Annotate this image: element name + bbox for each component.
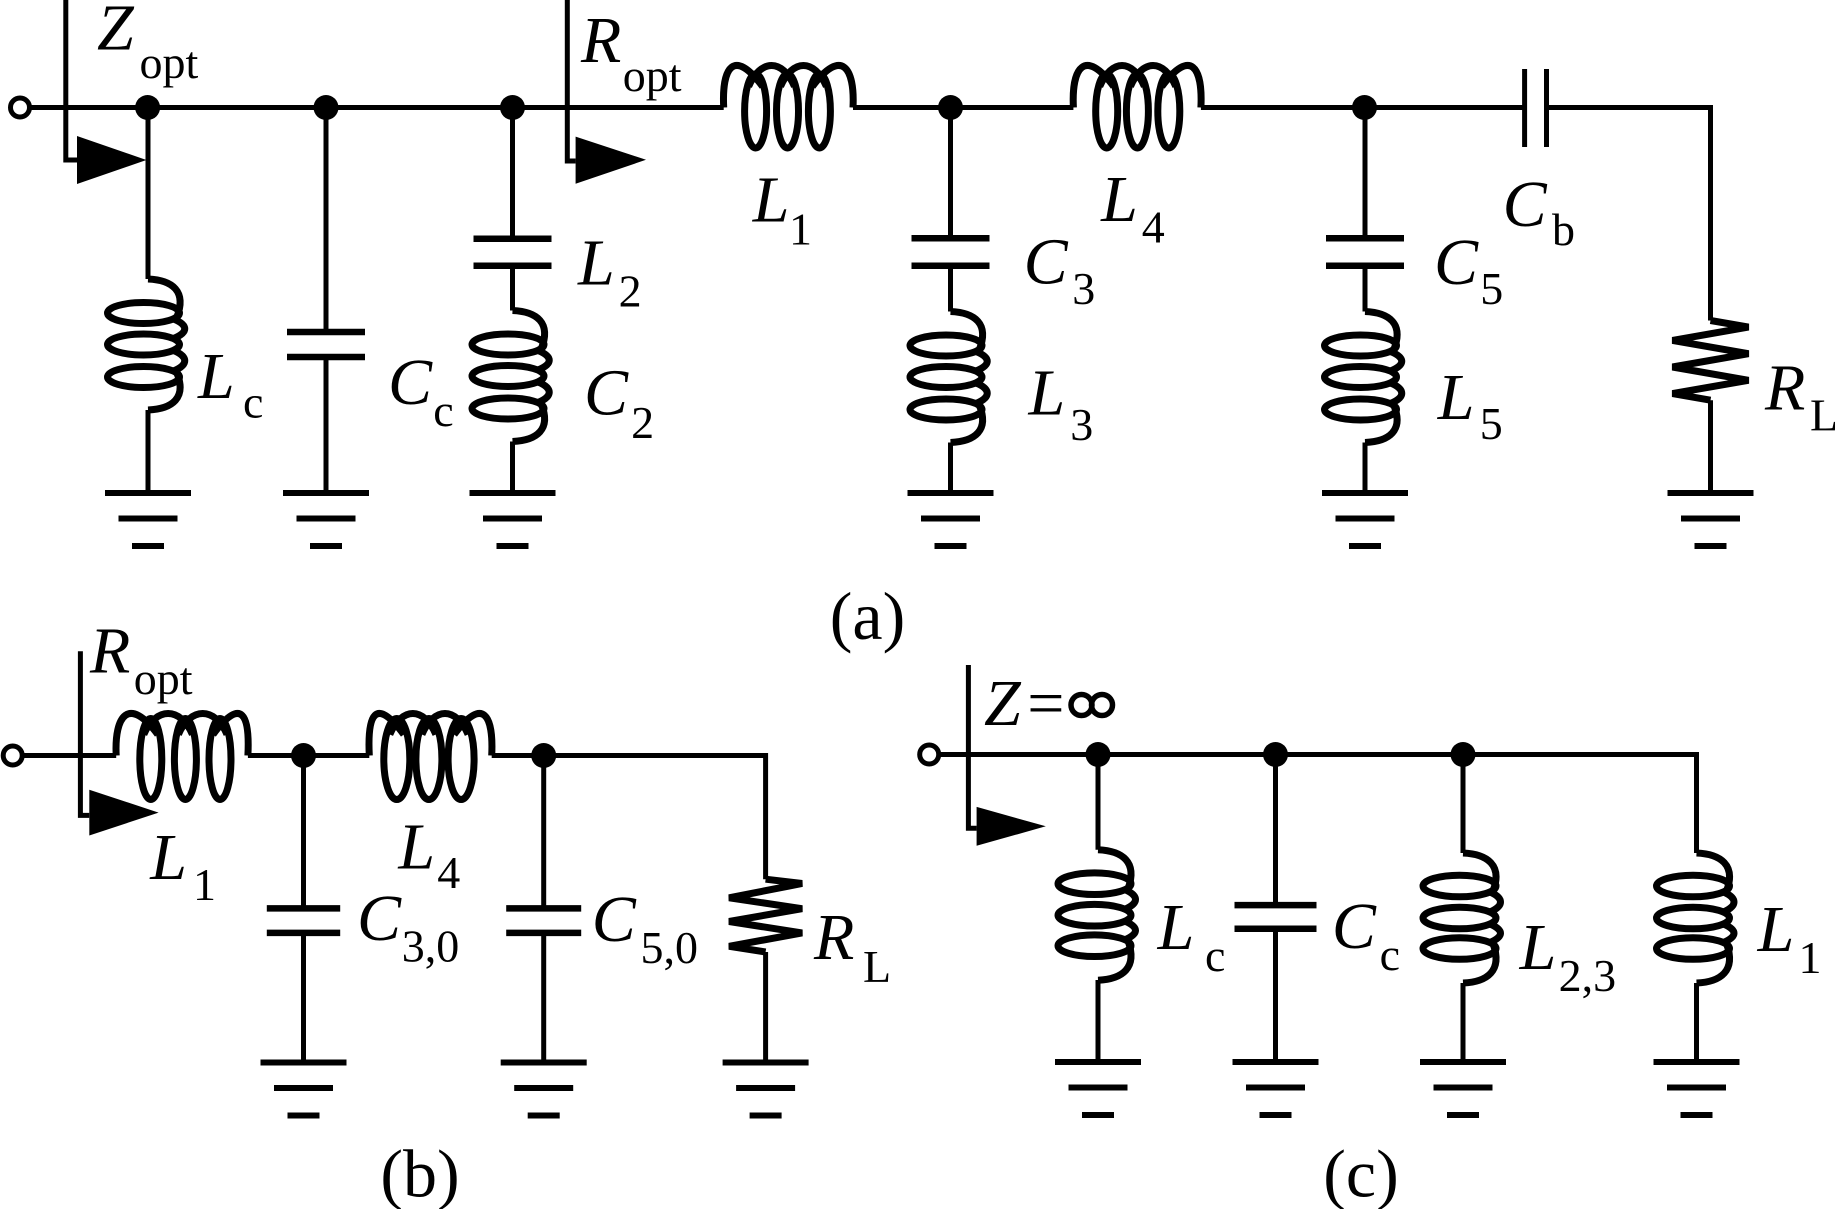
Ropt probe bar and arrow (b) (80, 651, 158, 835)
inductor Lc (c) (1058, 850, 1136, 981)
resistor RL (b) (729, 879, 802, 952)
svg-text:L: L (197, 340, 235, 413)
ground C3L3 (a) (908, 493, 994, 546)
wire RL to ground (a) (1708, 400, 1713, 493)
inductor L2,3 (1423, 853, 1501, 983)
inductor L4 (a) series (1073, 65, 1201, 148)
svg-text:1: 1 (1799, 932, 1822, 983)
svg-text:L: L (1519, 911, 1557, 984)
svg-text:Z: Z (984, 667, 1022, 740)
capacitor Cc (c) (1235, 905, 1317, 929)
input terminal (c) (920, 745, 939, 764)
ground L23 (c) (1420, 1062, 1506, 1115)
wire shunt Cc (a) (324, 108, 329, 333)
capacitor C5,0 (506, 908, 581, 933)
wire shunt Lc (c) (1096, 755, 1101, 850)
svg-text:opt: opt (134, 653, 193, 704)
wire shunt Lc (a) (146, 108, 151, 280)
inductor L1 (a) series (723, 65, 853, 148)
svg-text:C: C (592, 883, 637, 956)
svg-text:c: c (433, 385, 453, 436)
ground C5L5 (a) (1322, 493, 1408, 546)
ground L1 (c) (1654, 1062, 1740, 1115)
ground L2C2 (a) (470, 493, 556, 546)
svg-text:R: R (1764, 352, 1805, 425)
svg-text:3: 3 (1070, 399, 1093, 450)
svg-text:C: C (388, 346, 433, 419)
node 1 (a) (135, 95, 160, 120)
node 4 (a) (938, 95, 963, 120)
svg-text:R: R (580, 4, 621, 77)
wire main (a) seg1 (29, 105, 724, 110)
inductor Lc (a) (108, 279, 185, 410)
wire RL to ground (b) (763, 952, 768, 1063)
svg-text:opt: opt (623, 50, 682, 101)
svg-text:4: 4 (437, 847, 460, 898)
capacitor C3 (912, 238, 990, 265)
node 2 (c) (1263, 742, 1288, 767)
node 1 (c) (1086, 742, 1111, 767)
capacitor C5 (1326, 238, 1404, 265)
wire main (b) seg3 and corner (492, 756, 766, 880)
node 2 (b) (531, 743, 556, 768)
svg-text:L: L (1437, 361, 1475, 434)
svg-text:5: 5 (1480, 263, 1503, 314)
svg-text:2,3: 2,3 (1559, 950, 1617, 1001)
svg-text:L: L (577, 227, 615, 300)
svg-text:1: 1 (789, 204, 812, 255)
ground Lc (a) (105, 493, 191, 546)
node 3 (a) (500, 95, 525, 120)
svg-text:R: R (813, 901, 854, 974)
svg-text:L: L (752, 164, 790, 237)
svg-text:1: 1 (193, 859, 216, 910)
svg-text:L: L (149, 821, 187, 894)
node 3 (c) (1451, 742, 1476, 767)
inductor L1 (b) series (116, 713, 248, 799)
svg-text:C: C (584, 357, 629, 430)
capacitor Cb series (1525, 69, 1547, 147)
inductor L4 (b) series (369, 713, 492, 799)
svg-text:c: c (1205, 930, 1225, 981)
svg-text:Z: Z (97, 0, 135, 65)
Ropt probe bar and arrow (567, 0, 646, 184)
Z probe bar and arrow (c) (968, 665, 1045, 846)
ground RL (b) (723, 1063, 809, 1116)
capacitor Cc (a) (287, 332, 365, 357)
svg-text:L: L (1100, 163, 1138, 236)
wire main (a) seg3 (1201, 105, 1525, 110)
svg-text:L: L (1757, 893, 1795, 966)
svg-text:4: 4 (1142, 202, 1165, 253)
ground RL (a) (1668, 493, 1754, 546)
svg-text:L: L (1157, 891, 1195, 964)
svg-text:C: C (1332, 890, 1377, 963)
svg-text:c: c (243, 377, 263, 428)
inductor L3 (910, 312, 987, 443)
svg-text:2: 2 (619, 265, 642, 316)
resistor RL (a) (1673, 321, 1749, 401)
svg-text:C: C (1503, 168, 1548, 241)
node 2 (a) (314, 95, 339, 120)
node 1 (b) (291, 743, 316, 768)
svg-text:3,0: 3,0 (402, 921, 460, 972)
svg-text:=: = (1027, 667, 1064, 740)
svg-text:C: C (357, 882, 402, 955)
ground C5,0 (b) (501, 1063, 587, 1116)
wire shunt L1 (c) (1694, 983, 1699, 1062)
wire shunt C30 (301, 756, 306, 909)
ground C3,0 (b) (261, 1063, 347, 1116)
wire main (a) seg4 and corner (1547, 108, 1711, 321)
svg-text:R: R (89, 615, 130, 688)
wire main (c) (938, 755, 1697, 854)
wire shunt L23 (1461, 755, 1466, 854)
svg-text:3: 3 (1072, 263, 1095, 314)
capacitor in L2-C2 branch (474, 239, 552, 266)
inductor in L2-C2 branch (472, 311, 549, 442)
ground Cc (a) (283, 493, 369, 546)
svg-text:b: b (1552, 204, 1575, 255)
Zopt probe bar and arrow (66, 0, 147, 184)
svg-text:L: L (397, 811, 435, 884)
wire shunt Cc (c) (1273, 755, 1278, 906)
wire shunt C50 (541, 756, 546, 909)
node 5 (a) (1352, 95, 1377, 120)
svg-text:2: 2 (631, 397, 654, 448)
svg-text:opt: opt (140, 37, 199, 88)
svg-text:(b): (b) (380, 1136, 459, 1209)
svg-text:5,0: 5,0 (641, 922, 699, 973)
svg-text:L: L (1028, 357, 1066, 430)
capacitor C3,0 (267, 908, 340, 933)
input terminal (a) (11, 98, 30, 117)
svg-text:C: C (1024, 226, 1069, 299)
svg-text:L: L (863, 941, 891, 992)
svg-text:(c): (c) (1323, 1136, 1398, 1209)
inductor L1 (c) (1657, 853, 1735, 983)
ground Lc (c) (1055, 1062, 1141, 1115)
wire main (b) seg2 (248, 753, 369, 758)
svg-text:C: C (1434, 226, 1479, 299)
input terminal (b) (3, 746, 22, 765)
svg-text:(a): (a) (830, 578, 905, 654)
wire shunt L2C2 (a) (510, 108, 515, 239)
inductor L5 (1325, 312, 1402, 443)
svg-text:c: c (1380, 929, 1400, 980)
wire shunt C3L3 (948, 108, 953, 239)
wire main (b) seg1 (22, 753, 116, 758)
wire main (a) seg2 (853, 105, 1073, 110)
wire shunt C5L5 (1363, 108, 1368, 239)
svg-text:5: 5 (1480, 398, 1503, 449)
ground Cc (c) (1233, 1062, 1319, 1115)
svg-text:L: L (1810, 390, 1835, 441)
